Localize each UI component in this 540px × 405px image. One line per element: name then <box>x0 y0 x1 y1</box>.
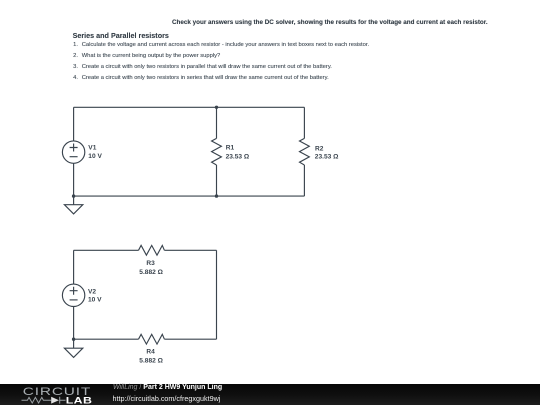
wire: circuit2 top rail right segment <box>164 249 216 251</box>
svg-text:23.53 Ω: 23.53 Ω <box>315 153 339 160</box>
svg-text:V1: V1 <box>88 145 96 152</box>
voltage source V1 <box>62 141 84 163</box>
wire: circuit2 left top lead (V2 to top rail) <box>73 250 75 284</box>
svg-text:R3: R3 <box>146 260 155 267</box>
annotation: heading <box>73 31 169 40</box>
wire: V2 bottom lead <box>73 307 75 340</box>
footer title <box>113 384 222 391</box>
svg-text:10 V: 10 V <box>88 153 102 160</box>
wire: circuit1 bottom rail <box>74 195 305 197</box>
resistor R1 <box>212 138 222 165</box>
svg-text:5.882 Ω: 5.882 Ω <box>139 357 163 364</box>
svg-text:R2: R2 <box>315 145 324 152</box>
ground GND1 <box>64 196 82 214</box>
resistor R2 <box>300 138 310 165</box>
wire: R2 bottom lead <box>303 165 305 196</box>
wire: circuit2 bottom rail right segment <box>164 338 216 340</box>
svg-text:5.882 Ω: 5.882 Ω <box>139 269 163 276</box>
annotation: task list <box>73 42 369 48</box>
wire: circuit1 top rail <box>74 106 305 108</box>
voltage source V2 <box>62 284 84 306</box>
resistor R4 <box>139 334 165 344</box>
junction node: R1 bottom <box>215 194 218 197</box>
wire: circuit2 bottom rail left segment <box>74 338 139 340</box>
svg-text:LAB: LAB <box>66 396 93 405</box>
junction node: R1 top <box>215 106 218 109</box>
wire: V1 top lead <box>73 107 75 141</box>
svg-text:23.53 Ω: 23.53 Ω <box>226 154 250 161</box>
junction node: V1 ground <box>72 194 75 197</box>
wire: circuit2 top rail left segment <box>74 249 139 251</box>
wire: V1 bottom lead <box>73 163 75 196</box>
svg-text:R1: R1 <box>226 145 235 152</box>
svg-text:V2: V2 <box>88 289 96 296</box>
svg-text:10 V: 10 V <box>88 297 102 304</box>
wire: R1 bottom lead <box>216 165 218 196</box>
wire: R2 top lead <box>303 107 305 138</box>
svg-text:R4: R4 <box>146 349 155 356</box>
wire: circuit2 right rail <box>216 250 218 339</box>
ground GND2 <box>64 339 82 357</box>
footer url <box>113 394 221 403</box>
resistor R3 <box>139 245 165 255</box>
wire: R1 top lead <box>216 107 218 138</box>
CircuitLab logo <box>0 384 100 405</box>
annotation: check-answers note <box>172 19 488 26</box>
junction node: V2 ground <box>72 337 75 340</box>
